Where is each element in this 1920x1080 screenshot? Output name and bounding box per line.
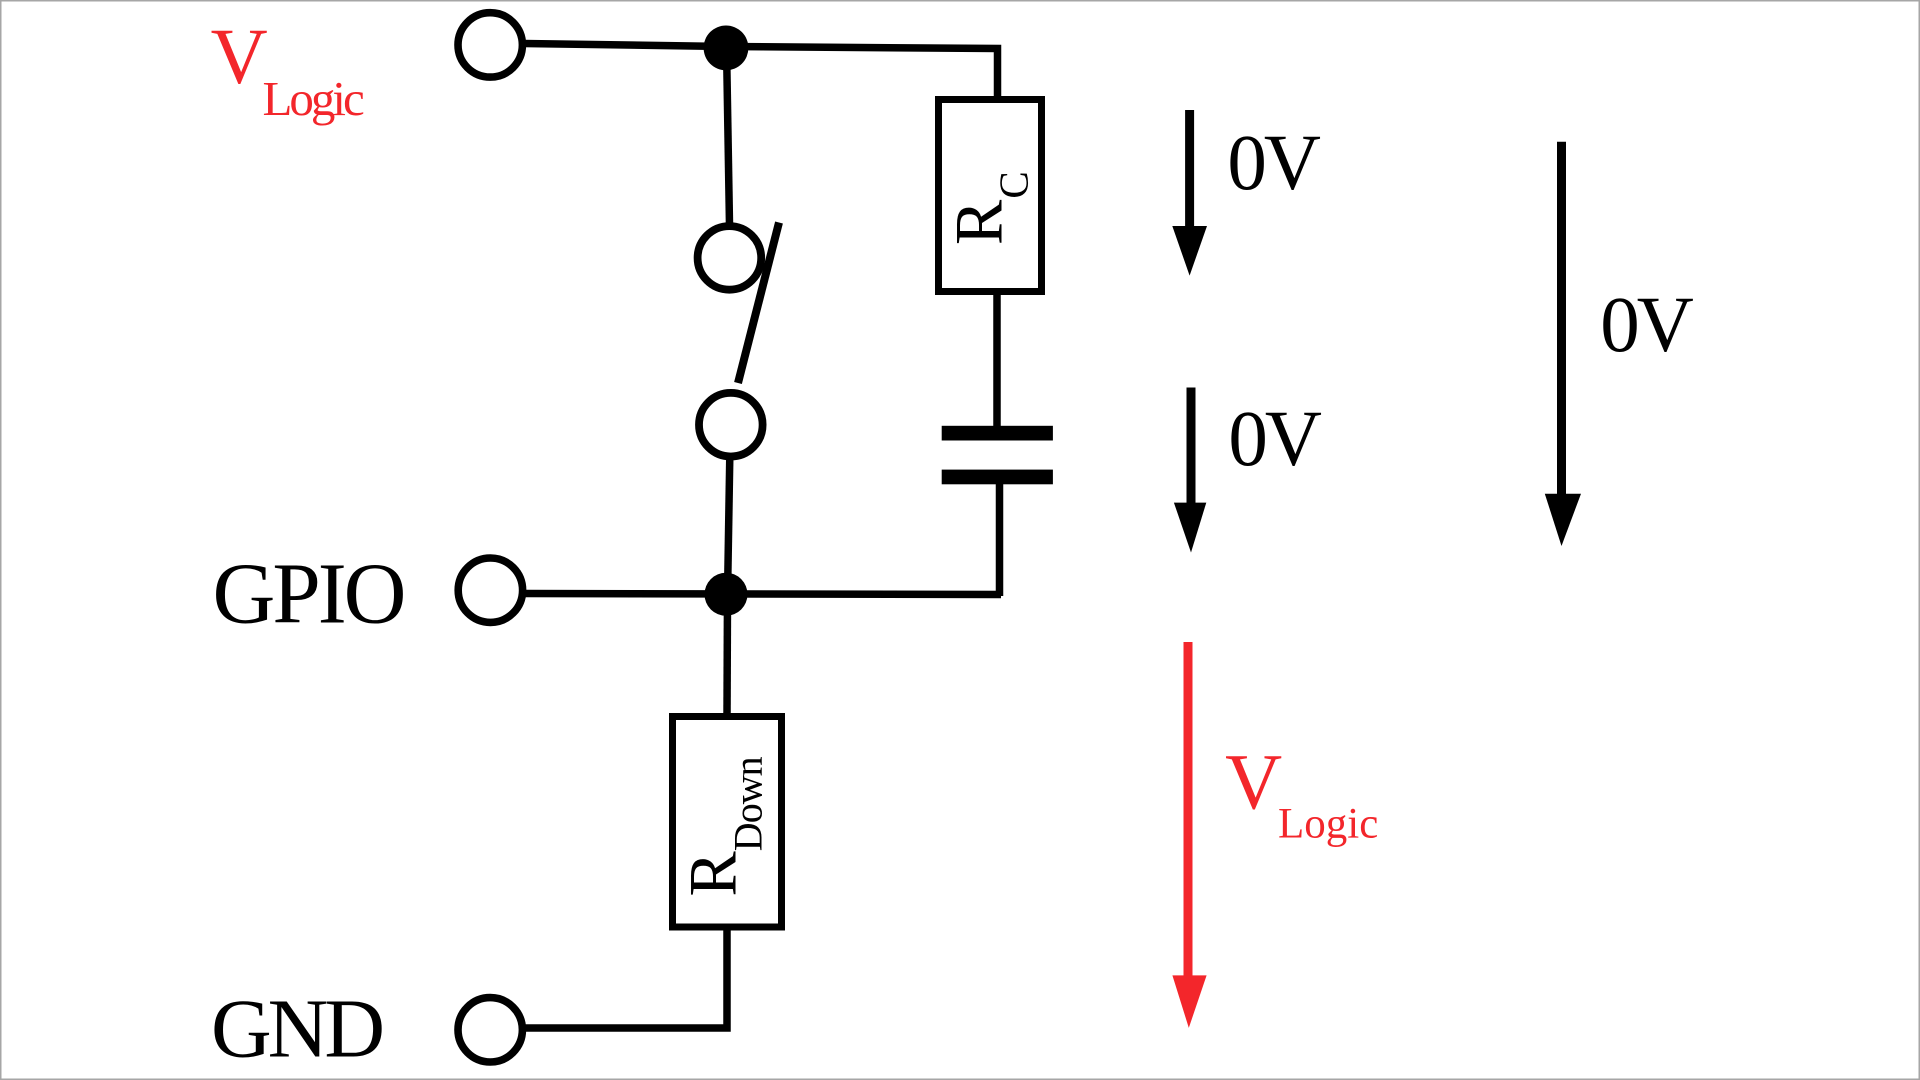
wire: switch bottom contact down to GPIO junction [728,456,730,596]
capacitor C top plate [942,426,1053,441]
wire: GPIO junction down to RDown top [723,594,731,717]
resistor RC body [939,100,1042,292]
arrow 3 head [1545,494,1581,546]
terminal GPIO [458,558,522,622]
switch S1 bottom contact [699,393,763,457]
arrow 4: VLogic red (line) [1184,642,1193,981]
svg-text:0V: 0V [1600,282,1694,369]
junction node GPIO [705,573,748,616]
switch S1 top contact [698,226,762,290]
capacitor C bottom plate [942,470,1053,485]
svg-text:V: V [211,14,268,101]
svg-text:Logic: Logic [263,71,365,126]
terminal VLogic [458,13,522,77]
svg-text:V: V [1225,740,1282,827]
svg-text:Logic: Logic [1278,801,1378,848]
svg-text:C: C [991,171,1037,198]
switch S1 blade [738,223,779,384]
svg-text:0V: 0V [1228,396,1322,483]
wire: top junction down to switch top contact [727,46,730,225]
svg-text:0V: 0V [1227,120,1321,207]
terminal GND [458,998,522,1062]
wire: capacitor bottom plate to GPIO wire [996,482,1004,596]
wire GPIO: terminal to capacitor branch [524,594,1001,595]
svg-text:R: R [941,199,1017,245]
arrow 2 head [1174,503,1206,553]
wire top: VLogic terminal to corner above RC [524,44,998,101]
arrow 1 head [1172,226,1207,276]
arrow 2: 0V across capacitor (line) [1187,388,1196,509]
junction node top [704,26,749,71]
arrow 3: 0V long right (line) [1557,142,1566,500]
arrow 4 head [1172,975,1206,1028]
arrow 1: 0V across RC (line) [1185,110,1194,232]
wire: RC bottom to capacitor top plate [993,292,1001,428]
resistor RDown body [673,717,782,928]
svg-text:GND: GND [211,983,382,1076]
svg-text:GPIO: GPIO [213,545,404,642]
svg-text:Down: Down [726,756,771,851]
svg-text:R: R [675,851,751,897]
wire GND: terminal right then up to RDown bottom [524,927,727,1028]
